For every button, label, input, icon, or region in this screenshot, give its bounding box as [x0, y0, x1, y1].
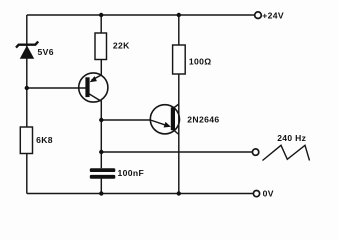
svg-text:6K8: 6K8	[36, 135, 53, 145]
svg-text:240 Hz: 240 Hz	[277, 133, 306, 143]
svg-text:22K: 22K	[113, 41, 130, 51]
svg-text:5V6: 5V6	[38, 47, 54, 57]
svg-text:+24V: +24V	[262, 11, 284, 21]
svg-text:100Ω: 100Ω	[189, 57, 212, 67]
svg-text:0V: 0V	[263, 189, 274, 199]
svg-text:100nF: 100nF	[118, 168, 145, 178]
svg-text:2N2646: 2N2646	[187, 115, 219, 125]
